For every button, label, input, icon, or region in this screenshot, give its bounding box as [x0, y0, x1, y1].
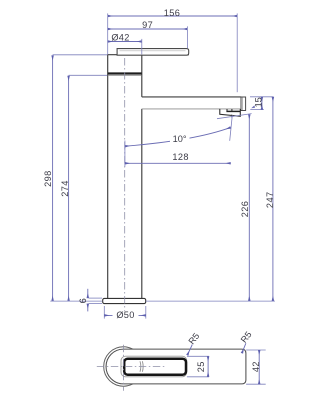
stadium arc seen through slot: [139, 361, 142, 372]
dim diameter 50: [104, 306, 146, 320]
svg-text:247: 247: [265, 192, 275, 209]
R5 callout handle: [186, 331, 201, 355]
dim 15: [250, 97, 274, 110]
aerator insert line: [226, 110, 240, 112]
svg-text:Ø42: Ø42: [111, 33, 129, 43]
spout end cap inner line: [242, 98, 244, 111]
baseline extension left: [50, 300, 102, 302]
dim 42 plan: [246, 350, 266, 384]
svg-text:10°: 10°: [173, 134, 187, 144]
svg-text:Ø50: Ø50: [116, 310, 134, 320]
angle 10 deg arc: [125, 127, 231, 146]
handle inner thick outline plan: [124, 359, 186, 375]
lower body top edge: [108, 74, 141, 76]
angle ray from aerator: [230, 115, 233, 141]
spout end cap: [241, 97, 246, 111]
svg-text:274: 274: [60, 180, 70, 197]
R5 callout stadium: [239, 330, 254, 354]
svg-text:97: 97: [142, 20, 153, 30]
svg-text:298: 298: [43, 170, 53, 187]
svg-text:42: 42: [251, 361, 261, 372]
baseline extension right: [146, 300, 275, 302]
dim 156: [108, 8, 238, 92]
faucet body right edge upper: [141, 55, 143, 97]
flange circle arc seen through slot: [141, 361, 144, 372]
body cap top line: [107, 54, 189, 56]
faucet body left edge: [107, 55, 109, 299]
spout bottom line: [142, 108, 241, 110]
dim diameter 42: [108, 33, 142, 55]
dim 6: [78, 289, 102, 312]
dim 25: [187, 356, 209, 377]
dim 298: [43, 55, 107, 301]
dim 274: [60, 75, 108, 301]
joint thick line: [108, 72, 142, 74]
dim 247: [265, 97, 275, 301]
base flange: [103, 298, 146, 303]
svg-text:128: 128: [172, 152, 189, 162]
handle lever: [117, 49, 189, 56]
svg-text:6: 6: [78, 298, 88, 303]
svg-text:25: 25: [196, 361, 206, 372]
aerator outlet tick: [231, 115, 233, 118]
plan horizontal centerline: [97, 366, 166, 368]
plan view spout stadium: [106, 349, 246, 384]
dim 226: [217, 114, 252, 301]
plan view flange circle: [104, 347, 143, 386]
spout top line: [142, 96, 241, 98]
svg-text:15: 15: [254, 97, 264, 107]
plan vertical centerline: [122, 345, 124, 391]
body centerline: [124, 58, 126, 312]
lever inner line: [120, 50, 186, 52]
handle outer outline plan: [121, 356, 187, 377]
faucet body right edge lower: [141, 109, 143, 299]
dim 128: [125, 141, 231, 167]
dim 97: [108, 20, 188, 48]
aerator tick 2: [231, 109, 233, 112]
svg-text:226: 226: [240, 201, 250, 218]
aerator tick 1: [226, 109, 228, 112]
aerator body: [220, 109, 241, 116]
svg-text:156: 156: [164, 8, 181, 18]
